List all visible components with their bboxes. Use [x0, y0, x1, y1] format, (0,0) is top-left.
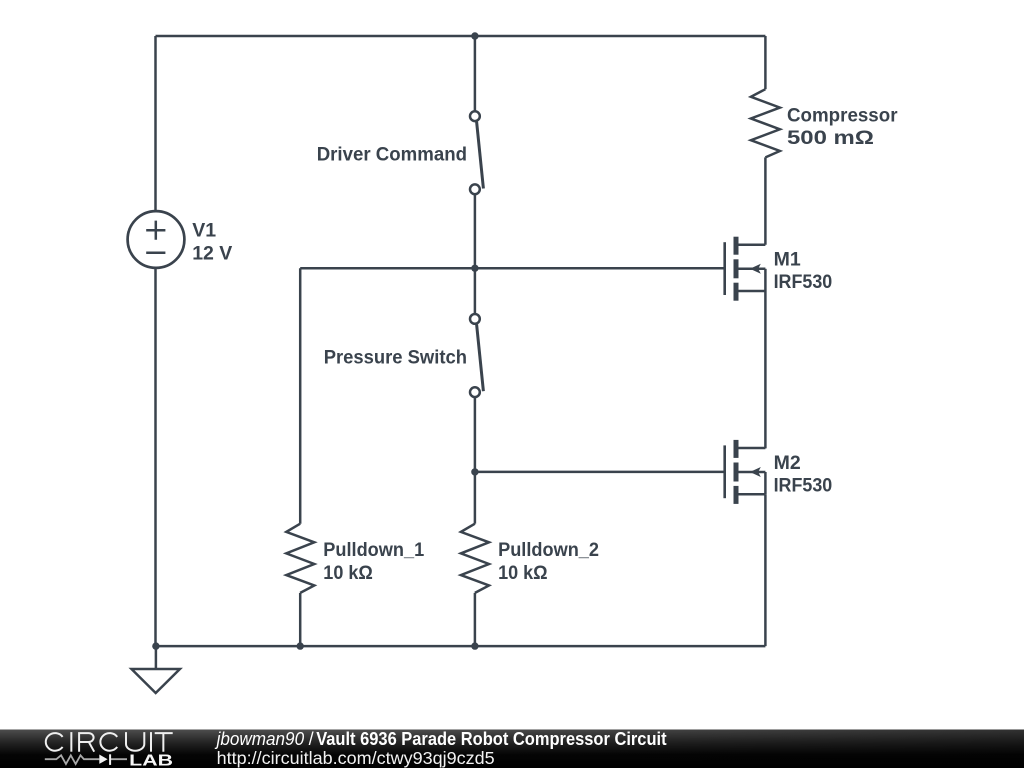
wire compressor to M1 drain: [764, 157, 767, 244]
switch SW2 Pressure Switch: [470, 314, 483, 397]
wire pulldown2 bottom lead: [474, 593, 477, 646]
svg-text:http://circuitlab.com/ctwy93qj: http://circuitlab.com/ctwy93qj9czd5: [217, 748, 495, 768]
transistor M1: [725, 237, 766, 301]
svg-text:LAB: LAB: [129, 752, 173, 768]
svg-text:IRF530: IRF530: [774, 474, 833, 496]
svg-text:Vault 6936 Parade Robot Compre: Vault 6936 Parade Robot Compressor Circu…: [316, 729, 666, 749]
svg-text:Pulldown_2: Pulldown_2: [498, 539, 599, 561]
wire pulldown1 top lead: [299, 268, 302, 523]
wire right upper (top rail to compressor): [764, 36, 767, 89]
svg-text:jbowman90: jbowman90: [214, 729, 304, 749]
svg-text:500 mΩ: 500 mΩ: [787, 127, 874, 149]
logo CIRCUIT word: [46, 732, 173, 752]
wire left upper (V1 to top rail): [154, 36, 157, 212]
voltage source V1: [128, 211, 185, 268]
wire top rail: [156, 35, 766, 38]
svg-text:M2: M2: [774, 452, 801, 474]
junction bottom rail / pulldown 2: [471, 642, 478, 649]
junction node A (switches / M1 gate): [471, 265, 478, 272]
ground: [132, 669, 180, 693]
svg-text:IRF530: IRF530: [774, 271, 833, 293]
svg-text:Compressor: Compressor: [787, 105, 898, 127]
switch SW1 Driver Command: [470, 111, 483, 194]
svg-text:Pressure Switch: Pressure Switch: [324, 347, 467, 369]
transistor M2: [725, 440, 766, 504]
logo resistor-diode strip: [45, 754, 127, 765]
wire switch1 top lead: [474, 36, 477, 111]
wire switch2 bottom lead: [474, 397, 477, 472]
footer bar: [0, 730, 1024, 768]
wire switch2 top lead: [474, 268, 477, 313]
svg-text:/: /: [309, 729, 314, 749]
wire left lower (V1 to bottom rail): [154, 268, 157, 647]
wire pulldown2 top lead: [474, 472, 477, 524]
resistor Pulldown_1: [286, 524, 314, 593]
resistor Pulldown_2: [461, 524, 489, 593]
wire node B horizontal (gate of M2): [475, 471, 725, 474]
wire M1 source to M2 drain: [764, 291, 767, 448]
wire M2 source to bottom rail: [764, 494, 767, 646]
svg-text:10 kΩ: 10 kΩ: [498, 562, 547, 584]
svg-text:Driver Command: Driver Command: [317, 144, 467, 166]
wire pulldown1 bottom lead: [299, 593, 302, 646]
wire switch1 bottom lead: [474, 195, 477, 269]
junction bottom rail / pulldown 1: [297, 642, 304, 649]
resistor Compressor: [751, 89, 780, 157]
wire ground lead: [155, 646, 158, 669]
junction bottom rail / ground: [152, 642, 159, 649]
wire node A horizontal (gate of M1): [300, 267, 725, 270]
wire bottom rail: [156, 645, 766, 648]
svg-text:12 V: 12 V: [192, 242, 232, 264]
svg-text:10 kΩ: 10 kΩ: [323, 562, 373, 584]
svg-text:Pulldown_1: Pulldown_1: [323, 539, 424, 561]
junction top rail / switch 1: [471, 32, 478, 39]
svg-text:M1: M1: [774, 249, 801, 271]
junction node B (switch 2 / M2 gate / pulldown 2): [471, 468, 478, 475]
svg-text:V1: V1: [192, 220, 216, 242]
